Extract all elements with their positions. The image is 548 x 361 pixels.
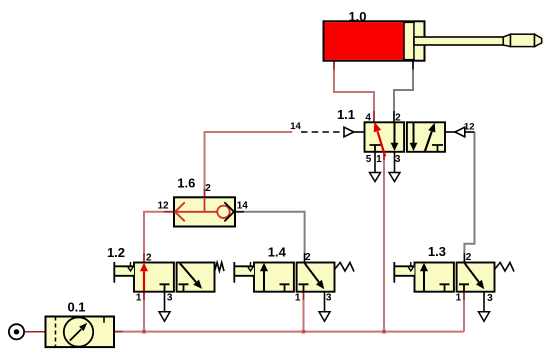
- svg-text:3: 3: [326, 293, 332, 304]
- valve 1.1 right box down arrow: [410, 123, 418, 151]
- label 1.0: [348, 9, 366, 24]
- label pilot 14: [290, 121, 301, 132]
- wire valve 1.4 port 1 to supply bus: [303, 292, 305, 332]
- svg-text:1: 1: [456, 293, 462, 304]
- wire valve 1.6 port 2 up to pilot line 14: [205, 132, 293, 197]
- valve 1.4 left box blocked tee: [280, 284, 290, 291]
- svg-text:2: 2: [146, 253, 152, 264]
- label port 5: [366, 154, 372, 165]
- label 1.4: [268, 245, 287, 260]
- compressed air source: [9, 324, 24, 339]
- label 1.2 port 3: [167, 292, 173, 303]
- shuttle valve 1.6 flow line: [175, 198, 218, 212]
- label 0.1: [67, 300, 85, 315]
- valve 1.3 actuator pushbutton with detent: [394, 262, 414, 283]
- svg-text:1.3: 1.3: [428, 244, 446, 259]
- label 1.3 port 2: [466, 252, 472, 263]
- junction at valve 1.1 branch: [382, 330, 386, 334]
- valve 1.3 exhaust port 3: [479, 292, 490, 322]
- label 1.2 port 1: [136, 292, 142, 303]
- valve 1.3 left box blocked tee: [440, 284, 450, 291]
- wire source 0.1 to service unit: [24, 331, 47, 333]
- label port 4: [365, 113, 371, 124]
- valve 1.2 actuator pushbutton with detent: [114, 262, 134, 283]
- valve 1.2 spring compressed: [215, 263, 224, 272]
- valve 1.3 body: [415, 263, 495, 292]
- svg-text:1.2: 1.2: [107, 245, 125, 260]
- label 1.3: [428, 244, 446, 259]
- wire valve 1.2 port 1 to supply bus: [143, 292, 145, 332]
- valve 1.1 red flow arrow 1 to 4: [374, 122, 386, 157]
- unpressurized connection stubs: [235, 61, 464, 263]
- label 1.6 port 2: [205, 183, 211, 194]
- valve 1.3 flow arrow 2 to 3: [465, 263, 485, 289]
- svg-text:3: 3: [487, 293, 493, 304]
- svg-text:3: 3: [395, 154, 401, 165]
- shuttle valve 1.6 body: [174, 197, 235, 226]
- svg-text:2: 2: [205, 183, 211, 194]
- valve 1.1 pilot 14 dashed line: [301, 131, 343, 133]
- valve 1.2 red flow arrow 1 to 2: [140, 263, 148, 291]
- label 1.3 port 3: [487, 293, 493, 304]
- svg-text:2: 2: [466, 252, 472, 263]
- label 1.6 port 12: [157, 200, 169, 211]
- svg-text:14: 14: [237, 200, 249, 211]
- valve 1.1 right box diagonal arrow: [425, 123, 436, 152]
- svg-text:2: 2: [395, 113, 401, 124]
- svg-text:1: 1: [295, 293, 301, 304]
- shuttle valve 1.6 ball: [217, 206, 229, 218]
- svg-text:2: 2: [305, 252, 311, 263]
- wire valve 1.6 port 12 to valve 1.2 port 2: [144, 212, 174, 263]
- valve 1.4 flow arrow 2 to 3: [305, 263, 325, 289]
- valve 1.1 body: [365, 122, 446, 152]
- cylinder 1.0: [324, 21, 542, 60]
- valve 1.4 body: [254, 263, 335, 292]
- label port 1: [376, 154, 382, 165]
- valve 1.1 pilot 12 triangle: [445, 127, 475, 137]
- label 1.6 port 14: [237, 200, 249, 211]
- valve 1.2 exhaust port 3: [159, 292, 170, 322]
- wire valve 1.1 pilot 12 to valve 1.3 port 2: [464, 132, 474, 263]
- valve 1.1 exhaust port 5: [370, 152, 381, 182]
- valve 1.4 actuator pushbutton with detent: [234, 262, 254, 283]
- label port 3: [395, 154, 401, 165]
- junction at valve 1.4 branch: [302, 330, 306, 334]
- air service unit 0.1: [46, 317, 115, 348]
- label port 2 top: [395, 113, 401, 124]
- valve 1.1 pilot 14 triangle: [344, 127, 365, 137]
- label pilot 12: [464, 121, 475, 132]
- label 1.4 port 2: [305, 252, 311, 263]
- valve 1.3 left box up arrow: [420, 263, 428, 291]
- valve 1.2 right box diagonal arrow: [180, 263, 202, 289]
- svg-text:12: 12: [464, 121, 475, 132]
- label 1.4 port 1: [295, 293, 301, 304]
- valve 1.2 blocked port 3 tee: [160, 284, 170, 291]
- svg-text:1: 1: [136, 292, 142, 303]
- valve 1.4 exhaust port 3: [319, 292, 330, 322]
- wire supply bus: [114, 331, 464, 333]
- label 1.2: [107, 245, 125, 260]
- pressurized connection stubs: [114, 61, 464, 332]
- svg-text:5: 5: [366, 154, 372, 165]
- valve 1.4 spring: [335, 263, 354, 272]
- svg-text:1.6: 1.6: [177, 175, 195, 190]
- shuttle valve 1.6 left seat chevron: [175, 202, 185, 221]
- valve 1.2 body: [134, 263, 215, 292]
- valve 1.4 left box up arrow: [260, 263, 268, 291]
- label 1.3 port 1: [456, 293, 462, 304]
- svg-text:4: 4: [365, 113, 371, 124]
- wire cylinder right port to valve 1.1 port 2: [394, 60, 413, 123]
- label 1.6: [177, 175, 195, 190]
- label 1.1: [337, 107, 355, 122]
- valve 1.4 blocked port 1 tee: [299, 284, 309, 291]
- valve 1.1 arrow 2 to 3: [391, 123, 399, 151]
- wire valve 1.3 port 1 to supply bus: [463, 292, 465, 332]
- junction at valve 1.2 branch: [142, 330, 146, 334]
- wire cylinder left port to valve 1.1 port 4: [334, 60, 374, 123]
- svg-text:1.4: 1.4: [268, 245, 287, 260]
- valve 1.2 right box blocked tee: [179, 284, 189, 291]
- svg-text:12: 12: [157, 200, 169, 211]
- svg-text:3: 3: [167, 292, 173, 303]
- svg-text:1.0: 1.0: [348, 9, 366, 24]
- svg-text:0.1: 0.1: [67, 300, 85, 315]
- wire valve 1.1 port 1 to supply bus: [383, 152, 385, 332]
- valve 1.3 spring: [495, 263, 514, 272]
- label 1.2 port 2: [146, 253, 152, 264]
- valve 1.1 blocked port 5 tee: [370, 145, 381, 152]
- wire valve 1.6 port 14 to valve 1.4 port 2: [235, 212, 305, 263]
- shuttle valve 1.6 right seat chevron: [224, 202, 234, 221]
- valve 1.3 blocked port 1 tee: [459, 284, 469, 291]
- svg-text:14: 14: [290, 121, 301, 132]
- label 1.4 port 3: [326, 293, 332, 304]
- valve 1.1 right box blocked tee: [432, 145, 443, 152]
- valve 1.1 exhaust port 3: [389, 152, 400, 182]
- svg-text:1.1: 1.1: [337, 107, 355, 122]
- svg-text:1: 1: [376, 154, 382, 165]
